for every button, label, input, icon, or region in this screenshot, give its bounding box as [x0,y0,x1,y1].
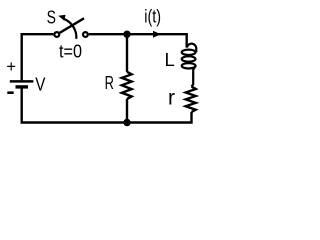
current arrow i(t) [153,31,161,38]
inductor loop 2 [182,56,196,61]
node junction top [123,31,130,38]
resistor r [186,87,196,112]
switch right contact [83,32,88,37]
svg-text:i(t): i(t) [144,5,161,26]
node junction bottom [123,119,130,126]
wire middle branch top [126,34,128,72]
wire middle branch bottom [126,99,128,123]
svg-text:L: L [165,49,175,70]
svg-text:R: R [105,72,114,93]
svg-text:r: r [168,86,175,109]
battery voltage source V [10,81,34,87]
inductor entry hook [187,44,196,53]
inductor exit wire to r [192,66,196,87]
wire left-top: battery top to switch left contact [22,34,54,80]
battery long plate (+) [10,80,34,83]
inductor loop 3 [182,63,196,68]
inductor loop 1 [182,50,196,55]
switch blade [60,18,84,33]
wire top: switch right contact to top-right corner down to coil [89,34,187,47]
battery short plate (-) [16,85,29,88]
resistor R [122,72,132,99]
svg-text:t=0: t=0 [59,41,82,62]
wire bottom rail and battery bottom lead [22,88,192,122]
switch closing arc [63,19,76,39]
switch S [54,15,87,39]
inductor L [182,44,197,87]
svg-text:V: V [35,74,46,95]
svg-text:+: + [6,58,16,76]
svg-text:S: S [47,7,56,28]
label - [7,91,13,94]
switch arrowhead [58,15,65,21]
switch left contact [54,32,59,37]
